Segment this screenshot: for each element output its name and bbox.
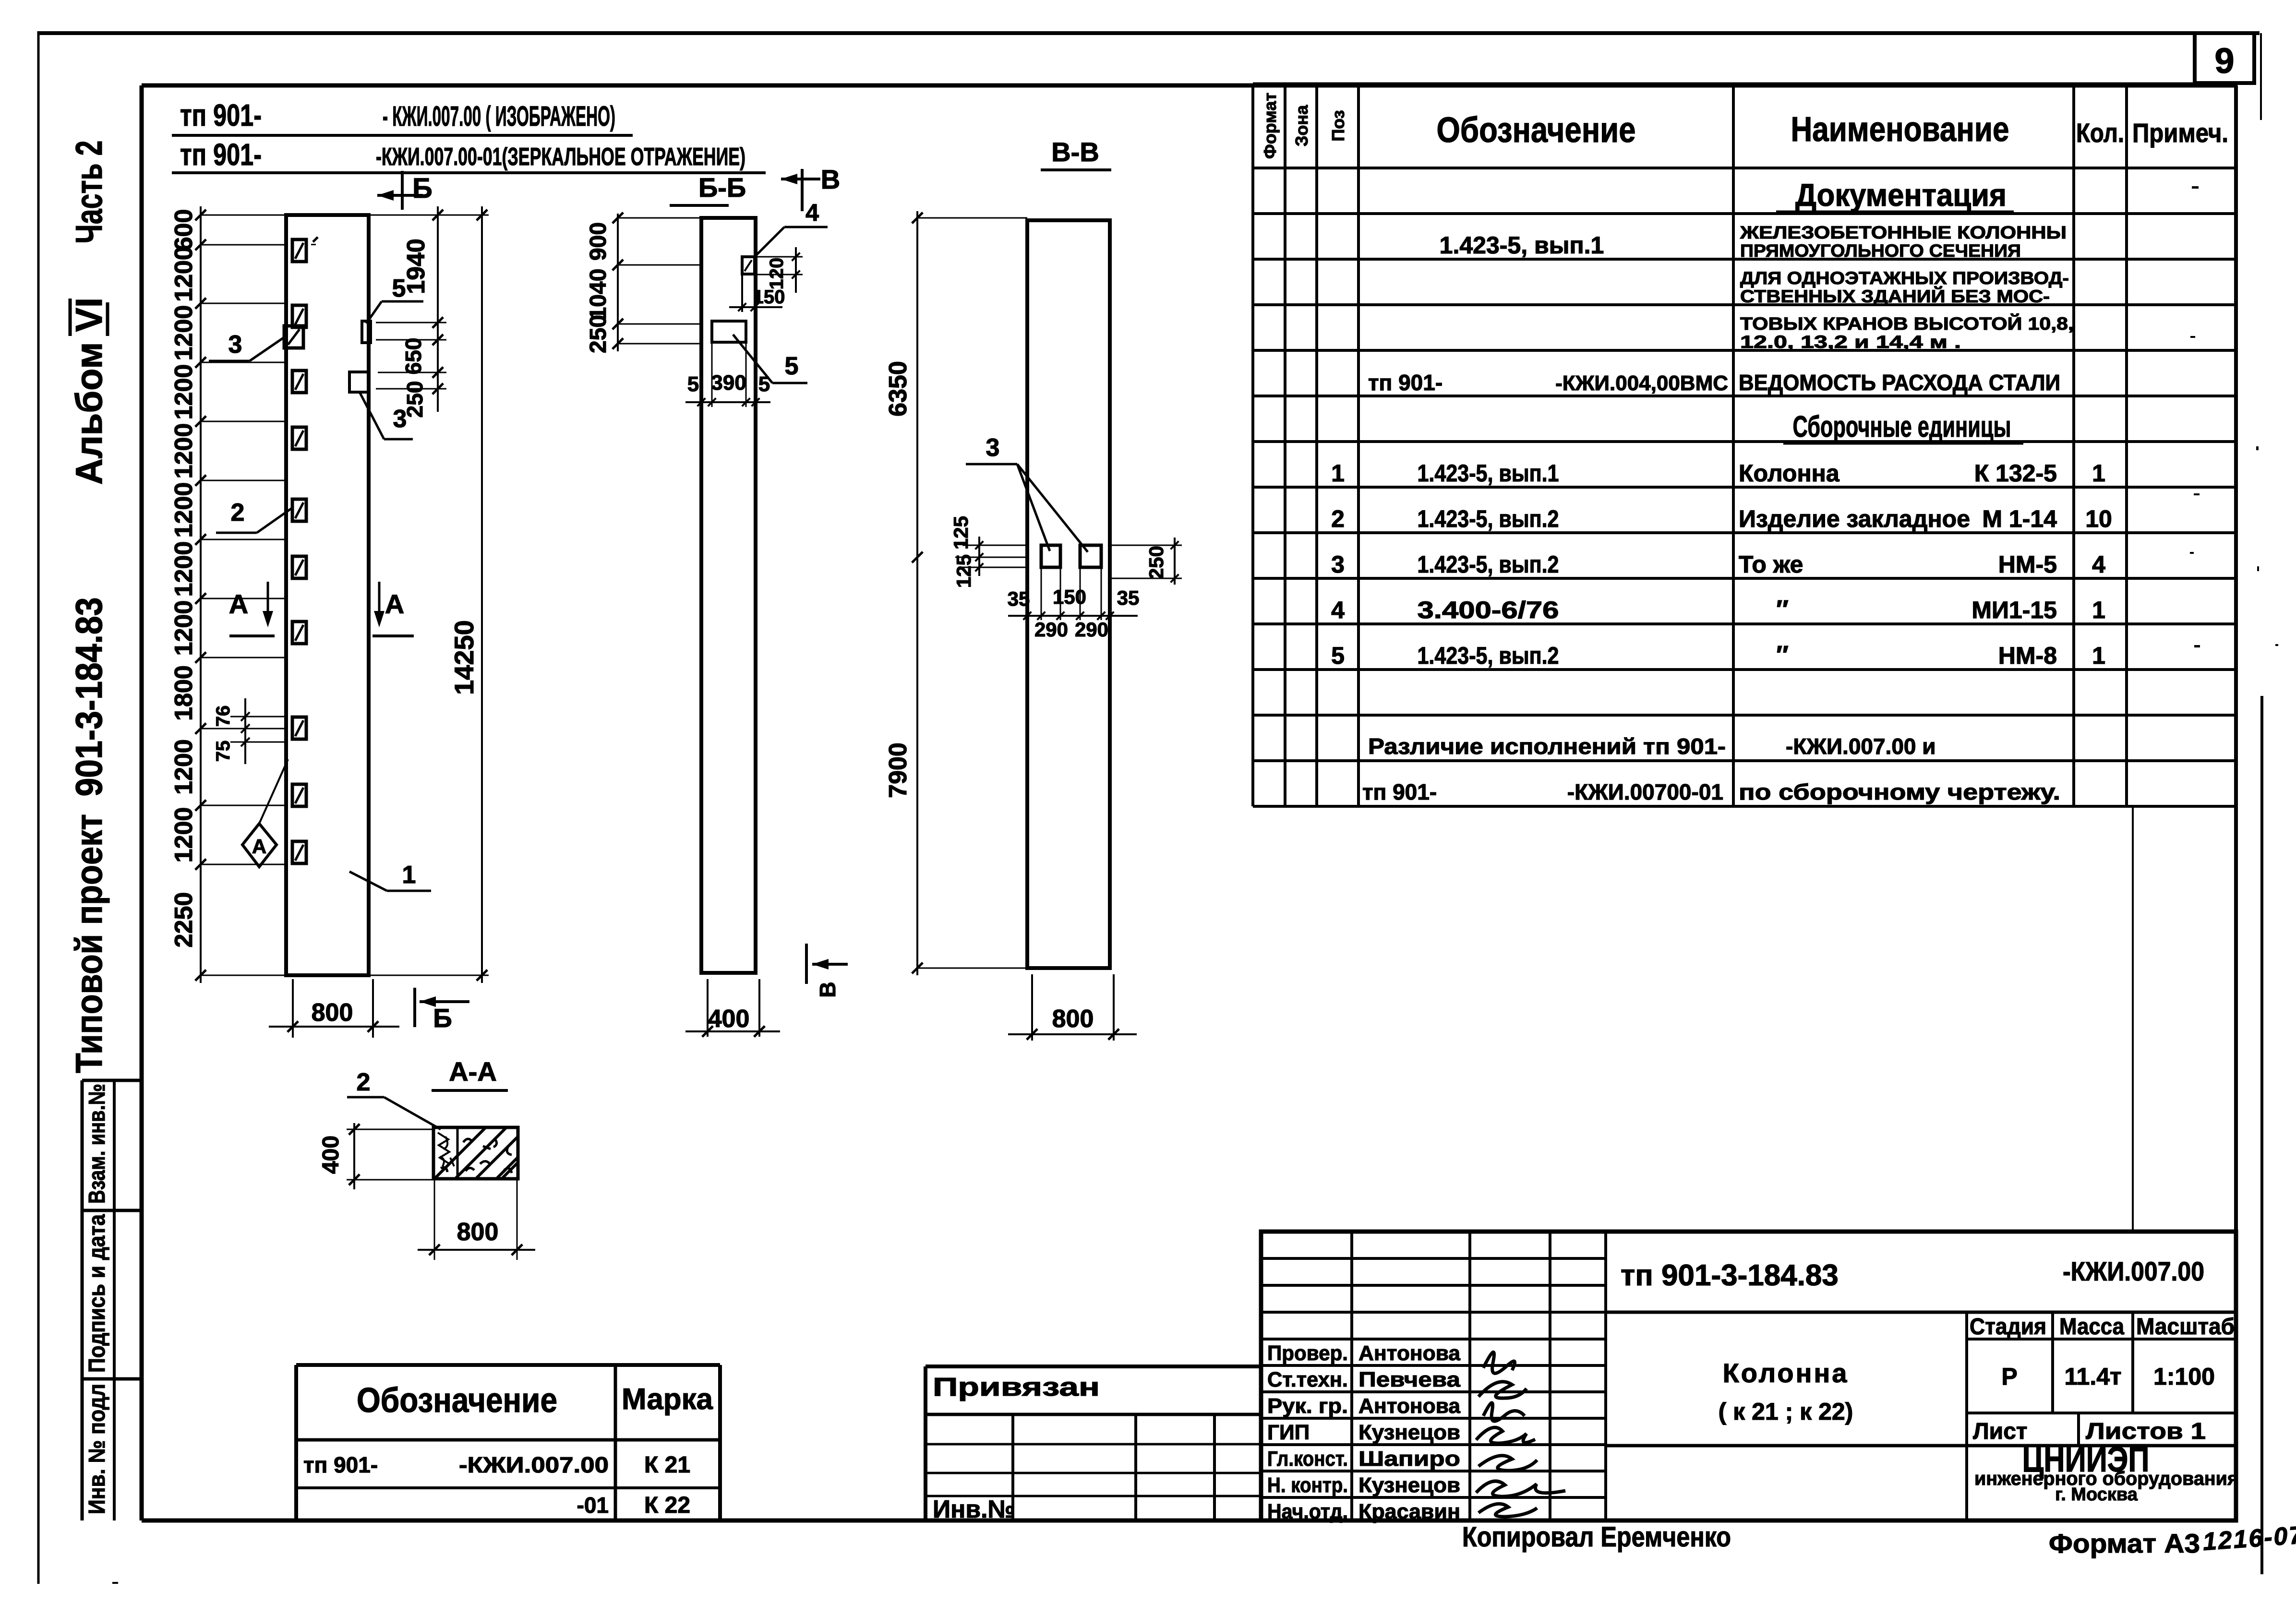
svg-text:-КЖИ.00700-01: -КЖИ.00700-01: [1567, 779, 1723, 804]
svg-text:Взам. инв.№: Взам. инв.№: [84, 1084, 110, 1204]
svg-text:5: 5: [687, 372, 699, 396]
svg-text:Ст.техн.: Ст.техн.: [1267, 1368, 1348, 1391]
svg-text:35: 35: [1117, 587, 1140, 609]
svg-text:А: А: [229, 589, 248, 619]
svg-text:ГИП: ГИП: [1267, 1421, 1310, 1444]
svg-text:тп 901-: тп 901-: [1368, 370, 1443, 395]
svg-text:Примеч.: Примеч.: [2132, 118, 2228, 148]
svg-text:600: 600: [170, 209, 198, 251]
svg-text:Зона: Зона: [1292, 105, 1311, 146]
svg-text:5: 5: [1331, 642, 1345, 669]
svg-text:Стадия: Стадия: [1970, 1314, 2046, 1340]
svg-text:650: 650: [401, 338, 426, 375]
svg-text:МИ1-15: МИ1-15: [1971, 597, 2057, 623]
svg-text:35: 35: [1008, 587, 1030, 610]
svg-text:1.423-5, вып.2: 1.423-5, вып.2: [1418, 642, 1559, 669]
svg-text:Типовой проект: Типовой проект: [68, 814, 110, 1073]
svg-text:К 21: К 21: [644, 1452, 690, 1478]
svg-text:-КЖИ.007.00 и: -КЖИ.007.00 и: [1786, 734, 1936, 759]
svg-text:390: 390: [711, 371, 746, 395]
svg-text:1200: 1200: [170, 364, 198, 420]
svg-text:1.423-5, вып.1: 1.423-5, вып.1: [1440, 232, 1604, 259]
svg-text:В-В: В-В: [1051, 137, 1099, 167]
svg-text:290: 290: [1034, 618, 1068, 641]
svg-text:75: 75: [213, 741, 234, 762]
svg-text:3.400-6/76: 3.400-6/76: [1418, 597, 1559, 623]
svg-text:Кузнецов: Кузнецов: [1358, 1421, 1460, 1444]
svg-text:ПРЯМОУГОЛЬНОГО СЕЧЕНИЯ: ПРЯМОУГОЛЬНОГО СЕЧЕНИЯ: [1740, 241, 2021, 261]
svg-text:1200: 1200: [170, 600, 198, 656]
svg-text:-КЖИ.007.00-01(ЗЕРКАЛЬНОЕ ОТРА: -КЖИ.007.00-01(ЗЕРКАЛЬНОЕ ОТРАЖЕНИЕ): [376, 143, 745, 171]
svg-text:4: 4: [2092, 551, 2105, 578]
svg-text:1.423-5, вып.1: 1.423-5, вып.1: [1418, 460, 1559, 487]
svg-text:3: 3: [393, 405, 407, 433]
svg-text:Подпись и дата: Подпись и дата: [84, 1214, 110, 1373]
svg-text:5: 5: [785, 352, 799, 380]
svg-text:1: 1: [1331, 460, 1345, 487]
svg-text:А: А: [385, 589, 404, 619]
svg-text:Певчева: Певчева: [1358, 1368, 1461, 1391]
svg-text:250: 250: [1145, 546, 1167, 579]
svg-text:1200: 1200: [170, 482, 198, 538]
svg-text:125: 125: [950, 516, 972, 550]
svg-text:150: 150: [753, 287, 785, 308]
svg-text:150: 150: [1053, 586, 1086, 608]
svg-text:3: 3: [1331, 551, 1345, 578]
svg-text:Антонова: Антонова: [1358, 1394, 1461, 1418]
svg-text:ТОВЫХ КРАНОВ ВЫСОТОЙ 10,8,: ТОВЫХ КРАНОВ ВЫСОТОЙ 10,8,: [1740, 313, 2074, 334]
svg-text:7900: 7900: [884, 742, 912, 798]
svg-text:9: 9: [2214, 41, 2234, 81]
svg-text:Н. контр.: Н. контр.: [1267, 1473, 1348, 1497]
svg-text:2: 2: [357, 1068, 371, 1096]
svg-text:1940: 1940: [402, 239, 430, 294]
svg-text:4: 4: [1331, 597, 1345, 623]
svg-text:тп 901-: тп 901-: [180, 137, 262, 172]
svg-text:Формат А3: Формат А3: [2049, 1528, 2200, 1558]
svg-text:Копировал Еремченко: Копировал Еремченко: [1462, 1521, 1731, 1553]
svg-text:Масса: Масса: [2059, 1314, 2124, 1340]
svg-text:1: 1: [402, 861, 416, 889]
svg-text:Сборочные единицы: Сборочные единицы: [1793, 410, 2011, 443]
svg-text:Б-Б: Б-Б: [698, 172, 746, 203]
svg-text:Колонна: Колонна: [1723, 1358, 1849, 1388]
svg-text:3: 3: [986, 434, 1000, 462]
svg-text:6350: 6350: [884, 361, 912, 417]
svg-text:900: 900: [586, 222, 611, 261]
svg-text:Обозначение: Обозначение: [1437, 110, 1636, 150]
svg-text:1:100: 1:100: [2153, 1363, 2215, 1390]
svg-text:То же: То же: [1739, 551, 1803, 578]
svg-text:Документация: Документация: [1795, 177, 2007, 213]
svg-text:Красавин: Красавин: [1358, 1500, 1460, 1523]
svg-text:Часть 2: Часть 2: [68, 141, 110, 244]
svg-text:1200: 1200: [170, 541, 198, 597]
svg-text:5: 5: [758, 372, 770, 396]
svg-text:-КЖИ.007.00: -КЖИ.007.00: [459, 1452, 609, 1477]
svg-text:290: 290: [1075, 618, 1108, 641]
svg-text:800: 800: [312, 999, 353, 1027]
svg-text:250: 250: [586, 315, 611, 353]
svg-text:Антонова: Антонова: [1358, 1341, 1461, 1365]
svg-text:2: 2: [231, 499, 245, 527]
svg-text:В: В: [815, 982, 840, 997]
svg-text:1800: 1800: [170, 665, 198, 721]
svg-text:10: 10: [2085, 505, 2112, 532]
svg-text:1200: 1200: [170, 423, 198, 479]
svg-text:НМ-8: НМ-8: [1998, 642, 2057, 669]
svg-text:тп 901-: тп 901-: [303, 1452, 378, 1477]
svg-text:В: В: [821, 164, 840, 194]
svg-text:Масштаб: Масштаб: [2136, 1314, 2235, 1340]
svg-text:800: 800: [457, 1218, 499, 1246]
svg-text:тп 901-: тп 901-: [1362, 779, 1437, 804]
svg-text:Инв. № подл: Инв. № подл: [84, 1384, 110, 1514]
svg-text:Изделие закладное: Изделие закладное: [1739, 505, 1970, 532]
svg-text:Р: Р: [2001, 1363, 2017, 1390]
svg-text:1: 1: [2092, 597, 2105, 623]
svg-text:″: ″: [1776, 641, 1789, 670]
svg-text:Различие исполнений тп 901-: Различие исполнений тп 901-: [1368, 734, 1726, 759]
svg-text:НМ-5: НМ-5: [1998, 551, 2057, 578]
svg-text:А-А: А-А: [449, 1056, 497, 1087]
svg-text:( к 21 ; к 22): ( к 21 ; к 22): [1719, 1398, 1853, 1425]
svg-text:Привязан: Привязан: [933, 1373, 1100, 1401]
svg-text:Инв.№: Инв.№: [933, 1496, 1015, 1523]
svg-text:-КЖИ.007.00: -КЖИ.007.00: [2063, 1256, 2204, 1286]
svg-text:12.0, 13,2 и 14,4 м .: 12.0, 13,2 и 14,4 м .: [1740, 332, 1961, 352]
svg-text:3: 3: [228, 331, 242, 359]
svg-text:1200: 1200: [170, 305, 198, 361]
svg-text:11.4т: 11.4т: [2064, 1363, 2121, 1390]
svg-text:тп 901-3-184.83: тп 901-3-184.83: [1621, 1259, 1839, 1292]
svg-text:Б: Б: [433, 1003, 452, 1033]
svg-text:К 132-5: К 132-5: [1974, 460, 2057, 487]
svg-text:тп 901-: тп 901-: [180, 98, 262, 132]
svg-text:1: 1: [2092, 460, 2105, 487]
svg-text:400: 400: [708, 1005, 750, 1033]
svg-text:Гл.конст.: Гл.конст.: [1267, 1447, 1348, 1471]
svg-text:1.423-5, вып.2: 1.423-5, вып.2: [1418, 551, 1559, 578]
svg-text:2: 2: [1331, 505, 1345, 532]
svg-text:5: 5: [392, 275, 406, 302]
svg-text:Марка: Марка: [622, 1383, 713, 1416]
svg-text:120: 120: [766, 258, 787, 290]
svg-text:К 22: К 22: [644, 1493, 690, 1518]
svg-text:″: ″: [1776, 595, 1789, 624]
svg-text:400: 400: [318, 1136, 344, 1174]
svg-text:-01: -01: [577, 1493, 609, 1518]
svg-text:- КЖИ.007.00 ( ИЗОБРАЖЕНО): - КЖИ.007.00 ( ИЗОБРАЖЕНО): [383, 101, 615, 132]
svg-text:1200: 1200: [170, 807, 198, 863]
svg-text:14250: 14250: [449, 620, 479, 695]
svg-text:Формат: Формат: [1260, 93, 1280, 159]
svg-text:1.423-5, вып.2: 1.423-5, вып.2: [1418, 505, 1559, 532]
svg-text:-КЖИ.004,00ВМС: -КЖИ.004,00ВМС: [1555, 371, 1728, 395]
svg-text:Провер.: Провер.: [1267, 1341, 1348, 1365]
svg-text:Нач.отд.: Нач.отд.: [1267, 1500, 1348, 1523]
svg-text:125: 125: [952, 554, 975, 588]
svg-text:М 1-14: М 1-14: [1982, 505, 2057, 532]
svg-text:2250: 2250: [170, 892, 198, 948]
svg-text:Б: Б: [412, 173, 433, 204]
svg-text:по сборочному чертежу.: по сборочному чертежу.: [1739, 779, 2060, 804]
svg-text:Шапиро: Шапиро: [1358, 1447, 1460, 1471]
svg-text:901-3-184.83: 901-3-184.83: [68, 598, 110, 797]
svg-text:1040: 1040: [586, 269, 611, 320]
svg-text:Колонна: Колонна: [1739, 460, 1840, 487]
svg-text:1: 1: [2092, 642, 2105, 669]
svg-text:76: 76: [213, 706, 234, 727]
svg-text:Кол.: Кол.: [2076, 118, 2124, 148]
svg-text:Альбом VI: Альбом VI: [68, 298, 110, 485]
svg-text:ДЛЯ ОДНОЭТАЖНЫХ ПРОИЗВОД-: ДЛЯ ОДНОЭТАЖНЫХ ПРОИЗВОД-: [1740, 268, 2069, 288]
svg-text:4: 4: [805, 199, 819, 226]
svg-text:1200: 1200: [170, 739, 198, 795]
svg-text:ВЕДОМОСТЬ РАСХОДА СТАЛИ: ВЕДОМОСТЬ РАСХОДА СТАЛИ: [1739, 370, 2060, 395]
svg-text:800: 800: [1052, 1005, 1094, 1033]
svg-text:1200: 1200: [170, 246, 198, 302]
svg-text:СТВЕННЫХ ЗДАНИЙ БЕЗ МОС-: СТВЕННЫХ ЗДАНИЙ БЕЗ МОС-: [1740, 286, 2050, 306]
svg-text:Обозначение: Обозначение: [357, 1381, 557, 1420]
svg-text:Поз: Поз: [1328, 110, 1348, 141]
svg-text:Рук. гр.: Рук. гр.: [1267, 1394, 1348, 1418]
svg-text:А: А: [252, 835, 266, 858]
svg-text:Кузнецов: Кузнецов: [1358, 1473, 1460, 1497]
svg-text:Лист: Лист: [1973, 1419, 2027, 1444]
svg-text:г. Москва: г. Москва: [2055, 1484, 2138, 1505]
svg-text:Наименование: Наименование: [1791, 110, 2009, 149]
svg-text:ЖЕЛЕЗОБЕТОННЫЕ КОЛОННЫ: ЖЕЛЕЗОБЕТОННЫЕ КОЛОННЫ: [1740, 223, 2067, 242]
